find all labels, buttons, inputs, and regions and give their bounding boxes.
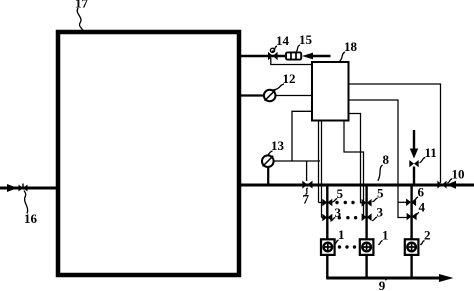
svg-text:15: 15: [299, 32, 313, 47]
svg-text:5: 5: [377, 186, 384, 201]
svg-text:8: 8: [383, 152, 390, 167]
svg-text:3: 3: [335, 205, 342, 220]
svg-text:10: 10: [452, 167, 465, 182]
svg-text:11: 11: [425, 145, 437, 160]
svg-text:16: 16: [24, 211, 38, 226]
svg-text:7: 7: [303, 192, 310, 207]
svg-text:5: 5: [337, 186, 344, 201]
svg-text:4: 4: [419, 200, 426, 215]
svg-text:6: 6: [418, 185, 425, 200]
svg-text:14: 14: [276, 33, 290, 48]
svg-text:12: 12: [283, 71, 296, 86]
svg-text:1: 1: [382, 228, 389, 243]
svg-text:3: 3: [377, 205, 384, 220]
svg-text:18: 18: [344, 39, 358, 54]
svg-text:17: 17: [75, 0, 89, 11]
svg-text:1: 1: [338, 227, 345, 242]
svg-text:9: 9: [379, 278, 386, 291]
svg-text:13: 13: [271, 138, 285, 153]
svg-text:2: 2: [424, 228, 431, 243]
